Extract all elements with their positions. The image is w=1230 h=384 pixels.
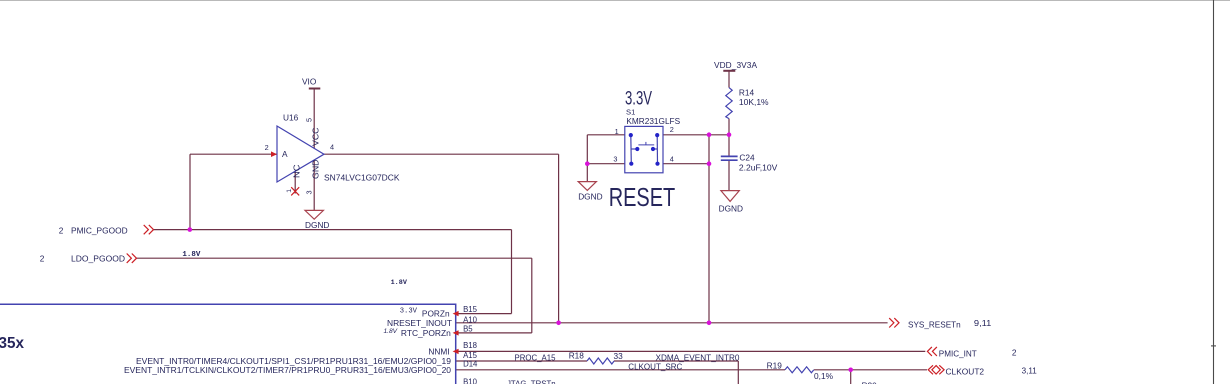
svg-text:1.8V: 1.8V — [182, 251, 201, 259]
svg-text:2: 2 — [265, 143, 269, 152]
svg-text:PROC_A15: PROC_A15 — [515, 352, 556, 362]
svg-text:VCC: VCC — [310, 128, 320, 147]
svg-text:EVENT_INTR1/TCLKIN/CLKOUT2/TIM: EVENT_INTR1/TCLKIN/CLKOUT2/TIMER7/PR1PRU… — [124, 366, 451, 375]
svg-text:SN74LVC1G07DCK: SN74LVC1G07DCK — [324, 173, 400, 183]
svg-text:3: 3 — [305, 190, 314, 194]
svg-text:PMIC_INT: PMIC_INT — [939, 348, 977, 358]
svg-text:VIO: VIO — [302, 77, 317, 87]
svg-text:3,11: 3,11 — [1022, 366, 1038, 376]
svg-text:B15: B15 — [463, 305, 478, 314]
svg-text:B10: B10 — [463, 377, 478, 384]
svg-text:RESET: RESET — [609, 184, 676, 212]
svg-text:B18: B18 — [463, 341, 477, 350]
svg-text:3.3V: 3.3V — [400, 308, 418, 316]
svg-text:B5: B5 — [463, 324, 473, 333]
svg-text:2.2uF,10V: 2.2uF,10V — [739, 163, 778, 173]
svg-text:2: 2 — [670, 125, 674, 134]
svg-text:2: 2 — [1012, 347, 1017, 357]
svg-text:4: 4 — [330, 143, 334, 152]
svg-text:2: 2 — [40, 253, 45, 263]
svg-text:NNMI: NNMI — [428, 346, 449, 356]
svg-text:10K,1%: 10K,1% — [739, 97, 769, 107]
svg-text:R19: R19 — [767, 361, 783, 371]
svg-text:SYS_RESETn: SYS_RESETn — [908, 320, 961, 330]
svg-text:U16: U16 — [283, 113, 299, 123]
svg-text:5: 5 — [305, 118, 314, 122]
svg-text:DGND: DGND — [578, 192, 602, 202]
svg-text:JTAG_TRSTn: JTAG_TRSTn — [507, 378, 556, 384]
svg-text:2: 2 — [59, 225, 64, 235]
svg-text:VDD_3V3A: VDD_3V3A — [714, 60, 757, 70]
svg-text:R20: R20 — [862, 380, 878, 384]
svg-text:DGND: DGND — [305, 220, 329, 230]
svg-text:R18: R18 — [569, 351, 585, 361]
svg-text:1.8V: 1.8V — [391, 279, 408, 287]
svg-text:CLKOUT_SRC: CLKOUT_SRC — [628, 361, 682, 371]
svg-text:RTC_PORZn: RTC_PORZn — [401, 328, 451, 338]
svg-text:0,1%: 0,1% — [814, 371, 834, 381]
svg-text:A10: A10 — [463, 315, 478, 324]
svg-text:PMIC_PGOOD: PMIC_PGOOD — [71, 226, 128, 236]
svg-text:1.8V: 1.8V — [384, 328, 398, 335]
svg-text:R14: R14 — [739, 88, 755, 98]
svg-text:D14: D14 — [463, 360, 478, 369]
svg-text:AM335x: AM335x — [0, 335, 25, 352]
svg-text:4: 4 — [670, 154, 674, 163]
svg-text:3: 3 — [613, 155, 617, 164]
svg-text:DGND: DGND — [719, 204, 743, 214]
svg-text:GND: GND — [310, 159, 320, 179]
svg-text:CLKOUT2: CLKOUT2 — [946, 366, 985, 376]
svg-text:EVENT_INTR0/TIMER4/CLKOUT1/SPI: EVENT_INTR0/TIMER4/CLKOUT1/SPI1_CS1/PR1P… — [136, 357, 451, 366]
svg-text:LDO_PGOOD: LDO_PGOOD — [71, 254, 125, 264]
svg-text:33: 33 — [614, 351, 624, 361]
svg-text:1: 1 — [286, 189, 293, 193]
svg-text:1: 1 — [615, 127, 619, 136]
svg-text:9,11: 9,11 — [974, 318, 992, 328]
svg-text:A: A — [282, 149, 288, 159]
svg-text:NC: NC — [292, 164, 302, 178]
svg-text:C24: C24 — [739, 153, 755, 163]
svg-text:3.3V: 3.3V — [625, 88, 652, 109]
svg-text:NRESET_INOUT: NRESET_INOUT — [387, 318, 452, 328]
